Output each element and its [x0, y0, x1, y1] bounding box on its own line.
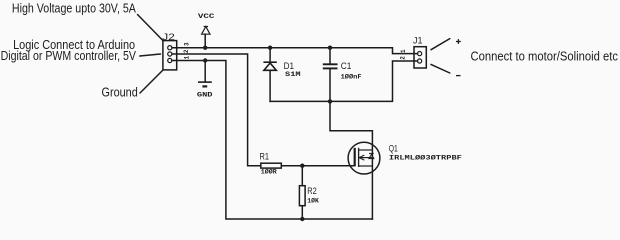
svg-text:J2: J2 — [162, 32, 175, 43]
svg-text:Connect to motor/Solinoid etc: Connect to motor/Solinoid etc — [471, 48, 619, 63]
svg-text:R1: R1 — [260, 151, 270, 161]
svg-text:Ground: Ground — [102, 85, 138, 100]
svg-text:Q1: Q1 — [389, 144, 398, 154]
svg-text:1: 1 — [400, 49, 407, 53]
svg-text:3: 3 — [183, 42, 190, 46]
svg-text:R2: R2 — [307, 186, 317, 196]
svg-text:IRLMLØØ3ØTRPBF: IRLMLØØ3ØTRPBF — [389, 154, 462, 162]
svg-text:Digital or PWM controller, 5V: Digital or PWM controller, 5V — [1, 48, 137, 63]
svg-text:2: 2 — [399, 56, 406, 60]
svg-text:2: 2 — [183, 49, 190, 53]
svg-text:1ØØnF: 1ØØnF — [341, 73, 362, 81]
svg-text:D1: D1 — [284, 61, 294, 71]
svg-text:VCC: VCC — [198, 13, 215, 20]
svg-text:1ØK: 1ØK — [307, 197, 319, 205]
svg-text:1ØØR: 1ØØR — [261, 168, 277, 176]
svg-text:GND: GND — [197, 91, 213, 98]
svg-text:1: 1 — [183, 55, 190, 59]
svg-text:J1: J1 — [413, 36, 423, 46]
svg-text:High Voltage upto 30V, 5A: High Voltage upto 30V, 5A — [12, 0, 136, 15]
svg-text:C1: C1 — [341, 61, 352, 71]
svg-text:S1M: S1M — [285, 71, 301, 78]
